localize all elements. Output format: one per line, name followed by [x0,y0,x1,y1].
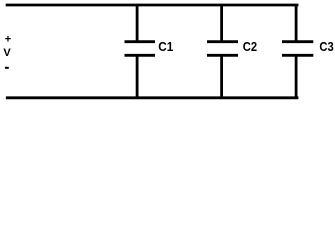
wire C1 top lead [136,4,139,43]
svg-text:C2: C2 [243,39,257,54]
wire C2 top lead [220,4,223,43]
svg-text:V: V [3,47,11,59]
capacitor C2 [207,42,238,56]
svg-text:C3: C3 [319,39,333,54]
wire C3 bottom lead [295,55,298,99]
wire C1 bottom lead [136,55,139,99]
wire top rail [6,4,299,7]
capacitor C1 [125,42,156,56]
node V- label [5,67,9,69]
svg-text:+: + [5,33,11,45]
capacitor C3 [282,42,313,56]
wire bottom rail [6,96,299,99]
wire C3 top lead [295,4,298,43]
svg-text:C1: C1 [158,39,173,54]
wire C2 bottom lead [220,55,223,99]
